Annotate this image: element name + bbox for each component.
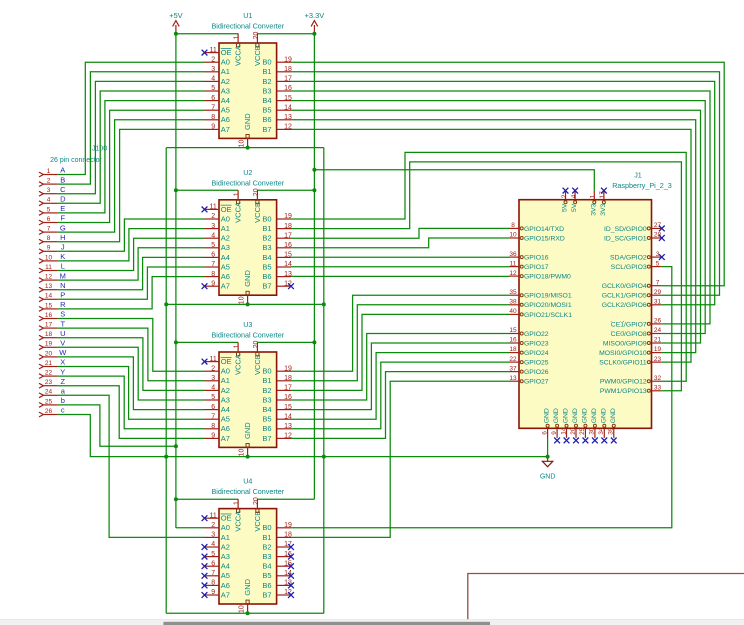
U2 pin 1 VCCA	[234, 190, 243, 223]
J100 pin 25 (b)	[39, 398, 58, 407]
J100 pin 9 (J)	[39, 245, 58, 254]
U2 pin 19 B0	[262, 213, 292, 223]
svg-text:S: S	[60, 310, 65, 319]
J100 pin 7 (G)	[39, 226, 58, 235]
svg-text:5V: 5V	[571, 203, 578, 212]
wire J100-8 to U1 A7	[58, 129, 205, 241]
J100 pin 21 (X)	[39, 360, 58, 369]
J1 pin 4 5V (top)	[570, 191, 578, 212]
svg-text:3: 3	[211, 532, 215, 539]
svg-text:14: 14	[45, 293, 53, 300]
svg-text:B3: B3	[262, 243, 271, 252]
J1 pin 7 GCLK0/GPIO4	[602, 279, 661, 290]
U4 pin 4 A2	[205, 541, 230, 551]
svg-text:11: 11	[210, 204, 217, 211]
U4 pin 7 A5	[205, 570, 230, 580]
wire J100-18 to U3 A2	[58, 338, 205, 391]
J100 pin 14 (P)	[39, 293, 58, 302]
U2 pin 13 B6	[262, 271, 292, 281]
svg-text:B0: B0	[262, 58, 271, 67]
svg-text:19: 19	[284, 213, 292, 220]
U4 pin 16 B3	[262, 551, 292, 561]
svg-text:H: H	[60, 233, 65, 242]
svg-text:GPIO18/PWM0: GPIO18/PWM0	[524, 274, 571, 281]
power symbol +3.3V	[304, 11, 324, 34]
svg-text:B3: B3	[262, 86, 271, 95]
J1 pin 10 GPIO15/RXD	[509, 232, 565, 243]
svg-text:A4: A4	[221, 253, 230, 262]
IC U1 Bidirectional Converter	[211, 11, 284, 138]
J1 pin 6 GND (bottom)	[541, 408, 550, 438]
svg-text:GPIO15/RXD: GPIO15/RXD	[524, 235, 565, 242]
svg-text:b: b	[61, 396, 65, 405]
svg-text:VCCA: VCCA	[234, 202, 243, 223]
wire U4 GND row	[166, 612, 324, 614]
svg-text:A5: A5	[221, 262, 230, 271]
svg-text:OE: OE	[221, 514, 232, 523]
J100 pin 8 (H)	[39, 235, 58, 244]
svg-text:Y: Y	[60, 367, 65, 376]
J100 pin 16 (S)	[39, 312, 58, 321]
no-connect U4 A6	[202, 583, 208, 589]
svg-text:A2: A2	[221, 542, 230, 551]
U1 pin 6 A4	[205, 95, 230, 105]
svg-text:GND: GND	[600, 408, 607, 423]
svg-text:3V3: 3V3	[590, 203, 597, 215]
no-connect U4 B6	[288, 583, 294, 589]
J1 pin 32 PWM0/GPIO12	[600, 375, 662, 386]
svg-text:19: 19	[654, 346, 662, 353]
U1 pin 18 B1	[262, 66, 292, 76]
junction GND left rail U2 row	[164, 302, 168, 306]
svg-text:B5: B5	[262, 571, 271, 580]
svg-text:7: 7	[211, 570, 215, 577]
U3 pin 3 A1	[205, 375, 230, 385]
svg-text:Bidirectional Converter: Bidirectional Converter	[211, 487, 284, 496]
no-connect U4 A7	[202, 592, 208, 598]
svg-text:A5: A5	[221, 571, 230, 580]
svg-text:B4: B4	[262, 562, 271, 571]
svg-text:14: 14	[560, 427, 567, 435]
svg-text:A1: A1	[221, 224, 230, 233]
U2 pin 9 A7	[205, 280, 230, 290]
svg-text:11: 11	[210, 512, 217, 519]
U4 pin 8 A6	[205, 580, 230, 590]
svg-text:18: 18	[284, 66, 292, 73]
svg-text:15: 15	[509, 327, 517, 334]
wire J100-5 to U1 A4	[58, 101, 205, 213]
svg-text:17: 17	[284, 385, 292, 392]
connector J100 26 pin	[50, 146, 107, 164]
wire U3 B0 to J1 GPIO19	[291, 295, 510, 371]
svg-text:34: 34	[598, 427, 605, 435]
J100 pin 3 (C)	[39, 187, 58, 196]
no-connect J1 pin 34	[601, 438, 607, 444]
svg-text:20: 20	[253, 497, 260, 505]
svg-text:8: 8	[211, 271, 215, 278]
wire U1 B2 to J1 GCLK2/GPIO6	[291, 81, 715, 304]
svg-text:12: 12	[284, 124, 292, 131]
svg-text:B7: B7	[262, 125, 271, 134]
svg-text:8: 8	[211, 114, 215, 121]
svg-text:5V: 5V	[562, 203, 569, 212]
U1 pin 1 VCCA	[234, 33, 243, 66]
U4 pin 20 VCCB	[253, 497, 262, 532]
J1 pin 30 GND (bottom)	[589, 408, 598, 438]
no-connect J1 pin 14	[564, 438, 570, 444]
svg-text:21: 21	[45, 360, 53, 367]
power symbol +5V	[169, 11, 183, 34]
svg-text:10: 10	[239, 605, 246, 613]
junction +3.3V at U2 feed	[312, 188, 316, 192]
svg-text:10: 10	[239, 449, 246, 457]
svg-text:+5V: +5V	[169, 11, 183, 20]
U4 pin 19 B0	[262, 522, 292, 532]
svg-text:J1: J1	[634, 171, 642, 180]
svg-text:A6: A6	[221, 272, 230, 281]
U2 pin 15 B4	[262, 252, 292, 262]
wire U3 B6 to J1 GPIO25	[291, 362, 510, 429]
no-connect U4 B2	[288, 544, 294, 550]
svg-text:A3: A3	[221, 86, 230, 95]
svg-text:SCLK0/GPIO11: SCLK0/GPIO11	[599, 360, 647, 367]
J100 pin 12 (M)	[39, 274, 58, 283]
wire J100-25 to +5V rail	[58, 405, 176, 446]
svg-text:B0: B0	[262, 214, 271, 223]
svg-text:26: 26	[654, 318, 662, 325]
svg-text:8: 8	[211, 580, 215, 587]
svg-text:GPIO14/TXD: GPIO14/TXD	[524, 226, 564, 233]
no-connect J1 pin 17	[601, 188, 607, 194]
J100 pin 5 (E)	[39, 206, 58, 215]
no-connect U4 A3	[202, 554, 208, 560]
no-connect U4 A4	[202, 563, 208, 569]
U3 pin 13 B6	[262, 423, 292, 433]
svg-text:16: 16	[509, 337, 517, 344]
svg-text:1: 1	[47, 168, 51, 175]
svg-text:11: 11	[510, 260, 517, 267]
svg-text:V: V	[60, 339, 65, 348]
svg-text:3: 3	[211, 375, 215, 382]
J100 pin 4 (D)	[39, 197, 58, 206]
svg-text:GND: GND	[243, 422, 252, 439]
svg-text:GPIO16: GPIO16	[524, 254, 549, 261]
U1 pin 17 B2	[262, 76, 292, 86]
svg-text:F: F	[61, 214, 66, 223]
svg-text:7: 7	[656, 279, 660, 286]
svg-text:N: N	[60, 281, 65, 290]
svg-text:1: 1	[590, 194, 597, 198]
J1 pin 26 CE1/GPIO7	[611, 318, 662, 329]
svg-text:30: 30	[589, 427, 596, 435]
wire J1 pin6 GND drop	[547, 438, 549, 457]
IC U3 Bidirectional Converter	[211, 320, 284, 447]
svg-text:14: 14	[284, 413, 292, 420]
U3 pin 7 A5	[205, 413, 230, 423]
svg-text:E: E	[60, 204, 65, 213]
no-connect U1 OE	[202, 50, 208, 56]
svg-text:C: C	[60, 185, 66, 194]
svg-text:A7: A7	[221, 282, 230, 291]
adjacent sheet frame (bottom right)	[468, 574, 744, 620]
no-connect U4 OE	[202, 515, 208, 521]
svg-text:9: 9	[211, 124, 215, 131]
svg-text:OE: OE	[221, 357, 232, 366]
svg-text:9: 9	[47, 245, 51, 252]
svg-text:1: 1	[234, 501, 241, 505]
svg-text:2: 2	[211, 522, 215, 529]
svg-text:GND: GND	[243, 113, 252, 130]
svg-text:GCLK0/GPIO4: GCLK0/GPIO4	[602, 283, 647, 290]
J1 pin 15 GPIO22	[509, 327, 548, 338]
svg-text:6: 6	[211, 252, 215, 259]
svg-text:13: 13	[45, 283, 53, 290]
J1 pin 11 GPIO17	[510, 260, 549, 271]
J100 pin 17 (T)	[39, 322, 58, 331]
svg-text:1: 1	[234, 192, 241, 196]
J100 pin 24 (a)	[39, 389, 58, 398]
svg-text:U4: U4	[243, 477, 252, 486]
svg-text:A0: A0	[221, 523, 230, 532]
svg-text:CE1/GPIO7: CE1/GPIO7	[611, 321, 647, 328]
wire J100-10 to U2 A1	[58, 229, 205, 261]
svg-text:35: 35	[509, 289, 517, 296]
svg-text:GPIO17: GPIO17	[524, 264, 549, 271]
wire +5V to U1 VCCA	[176, 33, 238, 35]
junction GND right rail U3 row	[322, 455, 326, 459]
no-connect U4 B4	[288, 563, 294, 569]
junction GND right rail U2 row	[322, 302, 326, 306]
J100 pin 13 (N)	[39, 283, 58, 292]
svg-text:11: 11	[210, 47, 217, 54]
wire +5V to U2 VCCA	[176, 189, 238, 191]
window scrollbar strip	[0, 620, 744, 625]
svg-text:21: 21	[654, 337, 662, 344]
U1 pin 10 GND	[239, 113, 252, 148]
svg-text:2: 2	[47, 178, 51, 185]
wire U2 B4 to J1 GPIO16	[291, 256, 510, 258]
svg-text:GPIO27: GPIO27	[524, 379, 549, 386]
no-connect J1 pin 4	[572, 188, 578, 194]
svg-text:1: 1	[234, 35, 241, 39]
no-connect U2 B7	[288, 283, 294, 289]
svg-text:B7: B7	[262, 282, 271, 291]
wire J100-19 to U3 A3	[58, 347, 205, 400]
wire J100-11 to U2 A2	[58, 238, 205, 270]
svg-text:29: 29	[654, 289, 662, 296]
junction U1 GND pin	[246, 146, 250, 150]
svg-text:A5: A5	[221, 106, 230, 115]
svg-text:13: 13	[509, 375, 517, 382]
svg-text:A6: A6	[221, 581, 230, 590]
U1 pin 4 A2	[205, 76, 230, 86]
svg-text:Z: Z	[61, 377, 66, 386]
no-connect J1 pin 28	[659, 235, 665, 241]
U2 pin 17 B2	[262, 232, 292, 242]
svg-text:A4: A4	[221, 405, 230, 414]
U2 pin 16 B3	[262, 242, 292, 252]
svg-text:MOSI0/GPIO10: MOSI0/GPIO10	[599, 350, 647, 357]
wire J100-20 to U3 A4	[58, 357, 205, 410]
U1 pin 7 A5	[205, 104, 230, 114]
J100 pin 19 (V)	[39, 341, 58, 350]
J1 pin 12 GPIO18/PWM0	[509, 270, 571, 281]
svg-text:13: 13	[284, 423, 292, 430]
J1 pin 28 ID_SC/GPIO1	[604, 232, 661, 243]
svg-text:4: 4	[570, 194, 577, 198]
svg-text:19: 19	[45, 341, 53, 348]
U1 pin 9 A7	[205, 124, 230, 134]
svg-text:K: K	[60, 252, 65, 261]
U2 pin 5 A3	[205, 242, 230, 252]
svg-text:SDA/GPIO2: SDA/GPIO2	[610, 254, 647, 261]
wire J100-3 to U1 A2	[58, 81, 205, 193]
svg-text:GCLK2/GPIO6: GCLK2/GPIO6	[602, 302, 647, 309]
J1 pin 38 GPIO20/MOSI1	[509, 299, 571, 310]
wire +5V to U4 VCCA	[176, 498, 238, 500]
svg-text:B5: B5	[262, 106, 271, 115]
U4 pin 18 B1	[262, 532, 292, 542]
svg-text:SCL/GPIO3: SCL/GPIO3	[611, 264, 647, 271]
wire U3 B5 to J1 GPIO24	[291, 353, 510, 420]
svg-text:B4: B4	[262, 253, 271, 262]
svg-text:7: 7	[211, 104, 215, 111]
svg-text:GND: GND	[540, 474, 556, 481]
svg-text:5: 5	[47, 206, 51, 213]
U3 pin 14 B5	[262, 413, 292, 423]
svg-text:B2: B2	[262, 77, 271, 86]
svg-text:5: 5	[211, 551, 215, 558]
svg-text:20: 20	[253, 32, 260, 40]
svg-text:CE0/GPIO8: CE0/GPIO8	[611, 331, 647, 338]
svg-text:2: 2	[561, 194, 568, 198]
svg-text:A2: A2	[221, 234, 230, 243]
svg-text:12: 12	[45, 274, 53, 281]
svg-text:GND: GND	[572, 408, 579, 423]
svg-text:A7: A7	[221, 434, 230, 443]
svg-text:c: c	[61, 406, 65, 415]
wire J100-22 to U3 A6	[58, 376, 205, 429]
svg-text:A3: A3	[221, 395, 230, 404]
svg-text:16: 16	[45, 312, 53, 319]
wire J100-15 to U2 A6	[58, 277, 205, 309]
svg-text:GPIO26: GPIO26	[524, 369, 549, 376]
J1 pin 1 3V3 (top)	[590, 191, 598, 216]
svg-text:ID_SD/GPIO0: ID_SD/GPIO0	[604, 226, 647, 233]
J1 pin 3 SDA/GPIO2	[610, 251, 661, 262]
svg-text:GND: GND	[243, 270, 252, 287]
J1 pin 19 MOSI0/GPIO10	[599, 346, 661, 357]
U1 pin 2 A0	[205, 56, 230, 66]
svg-text:A3: A3	[221, 552, 230, 561]
U4 pin 5 A3	[205, 551, 230, 561]
junction +5V at U4 feed	[174, 497, 178, 501]
J1 pin 17 3V3 (top)	[599, 191, 607, 216]
J1 pin 36 GPIO16	[509, 251, 548, 262]
svg-text:A3: A3	[221, 243, 230, 252]
U1 pin 12 B7	[262, 124, 292, 134]
J1 pin 37 GPIO26	[509, 365, 548, 376]
svg-text:L: L	[61, 262, 65, 271]
no-connect U4 A5	[202, 573, 208, 579]
svg-text:4: 4	[211, 385, 215, 392]
J1 pin 39 GND (bottom)	[608, 408, 617, 438]
junction U2 GND pin	[246, 302, 250, 306]
svg-text:3V3: 3V3	[600, 203, 607, 215]
U4 pin 13 B6	[262, 580, 292, 590]
svg-text:B7: B7	[262, 590, 271, 599]
U3 pin 2 A0	[205, 365, 230, 375]
U4 pin 17 B2	[262, 541, 292, 551]
U2 pin 3 A1	[205, 223, 230, 233]
wire U3 GND row extended to GND symbol	[166, 456, 547, 458]
svg-text:U1: U1	[243, 11, 252, 20]
J1 pin 9 GND (bottom)	[551, 408, 560, 438]
svg-text:B3: B3	[262, 552, 271, 561]
U4 pin 14 B5	[262, 570, 292, 580]
svg-text:GND: GND	[581, 408, 588, 423]
svg-text:GND: GND	[553, 408, 560, 423]
no-connect J1 pin 27	[659, 226, 665, 232]
svg-text:17: 17	[45, 322, 53, 329]
svg-text:B2: B2	[262, 386, 271, 395]
svg-text:2: 2	[211, 213, 215, 220]
svg-text:4: 4	[211, 232, 215, 239]
svg-text:15: 15	[284, 404, 292, 411]
U4 pin 11 OE	[205, 512, 232, 522]
svg-text:19: 19	[284, 365, 292, 372]
svg-text:13: 13	[284, 271, 292, 278]
svg-text:10: 10	[239, 296, 246, 304]
wire U2 B1 to J1 PWM1/GPIO13	[291, 162, 681, 391]
svg-text:5: 5	[211, 85, 215, 92]
svg-text:VCCB: VCCB	[253, 354, 262, 375]
svg-text:20: 20	[253, 341, 260, 349]
J1 pin 2 5V (top)	[561, 191, 569, 212]
no-connect U2 OE	[202, 207, 208, 213]
U3 pin 1 VCCA	[234, 342, 243, 375]
svg-text:U2: U2	[243, 168, 252, 177]
J1 pin 34 GND (bottom)	[598, 408, 607, 438]
svg-text:GPIO21/SCLK1: GPIO21/SCLK1	[524, 312, 572, 319]
svg-text:D: D	[60, 195, 66, 204]
svg-text:5: 5	[211, 242, 215, 249]
svg-text:A4: A4	[221, 562, 230, 571]
svg-text:PWM0/GPIO12: PWM0/GPIO12	[600, 379, 647, 386]
J100 pin 15 (R)	[39, 302, 58, 311]
no-connect U4 A2	[202, 544, 208, 550]
svg-text:GND: GND	[591, 408, 598, 423]
wire U1 VCCB to +3.3V	[257, 33, 314, 35]
J100 pin 20 (W)	[39, 350, 58, 359]
svg-text:GPIO23: GPIO23	[524, 340, 549, 347]
svg-text:10: 10	[239, 140, 246, 148]
svg-text:GND: GND	[563, 408, 570, 423]
U4 pin 12 B7	[262, 589, 292, 599]
wire U2 B0 to J1 PWM0/GPIO12	[291, 152, 686, 381]
no-connect J1 pin 30	[592, 438, 598, 444]
U1 pin 3 A1	[205, 66, 230, 76]
U3 pin 18 B1	[262, 375, 292, 385]
J1 pin 40 GPIO21/SCLK1	[509, 308, 572, 319]
junction +5V at U3 feed	[174, 340, 178, 344]
J1 pin 13 GPIO27	[509, 375, 548, 386]
svg-text:B2: B2	[262, 234, 271, 243]
svg-text:A1: A1	[221, 376, 230, 385]
svg-text:A7: A7	[221, 590, 230, 599]
svg-text:23: 23	[45, 379, 53, 386]
wire U3 B1 to J1 GPIO20	[291, 305, 510, 381]
